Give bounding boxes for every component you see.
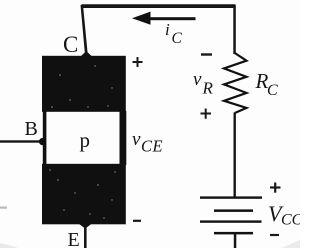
node C connector triangle	[81, 51, 93, 57]
svg-text:B: B	[25, 118, 38, 140]
wire right vertical from top wire down to resistor	[233, 5, 236, 54]
plus sign battery top (VCC +)	[270, 183, 281, 193]
svg-text:C: C	[63, 32, 78, 57]
battery VCC plate 1 long positive	[200, 196, 262, 198]
wire emitter lead down from E to bottom edge	[84, 226, 87, 248]
plus sign top right of block (vCE +)	[133, 57, 143, 67]
transistor base p region right border	[120, 111, 127, 165]
wire top horizontal collector wire	[82, 4, 236, 8]
battery plate 4 short negative	[214, 232, 253, 235]
battery plate 3 long	[200, 220, 262, 222]
scan artifact left edge	[0, 207, 7, 209]
wire battery bottom lead to bottom edge	[234, 234, 237, 248]
svg-text:v: v	[132, 129, 141, 150]
svg-text:i: i	[165, 20, 170, 39]
wire base lead from left edge to B	[0, 140, 42, 142]
transistor emitter region (black, n)	[42, 164, 126, 225]
node E connector triangle	[79, 224, 93, 229]
svg-text:C: C	[172, 30, 183, 47]
svg-text:CE: CE	[141, 137, 163, 156]
svg-text:C: C	[267, 82, 278, 99]
minus sign top of resistor (vR -)	[201, 53, 212, 55]
arrow current direction iC	[132, 12, 196, 25]
wire left vertical from top wire down to C terminal	[81, 5, 88, 53]
svg-text:CC: CC	[281, 212, 300, 229]
transistor collector region (black, n)	[42, 56, 126, 112]
svg-text:E: E	[68, 229, 80, 248]
plus sign below vR	[201, 109, 212, 119]
scan artifact bottom left corner	[0, 243, 18, 248]
svg-text:v: v	[193, 69, 202, 90]
battery plate 2 short	[214, 209, 253, 212]
resistor RC zigzag	[224, 53, 247, 113]
scan artifact bottom right corner	[282, 240, 300, 248]
minus sign battery bottom (VCC -)	[270, 234, 279, 236]
svg-text:p: p	[80, 128, 91, 152]
wire right vertical from resistor down to battery	[234, 113, 236, 198]
node B junction dot	[39, 138, 46, 145]
transistor base p region left border	[43, 111, 47, 165]
minus sign bottom right of block (vCE -)	[133, 220, 141, 222]
scan speckle noise in black regions	[49, 65, 116, 218]
svg-text:R: R	[202, 79, 214, 98]
